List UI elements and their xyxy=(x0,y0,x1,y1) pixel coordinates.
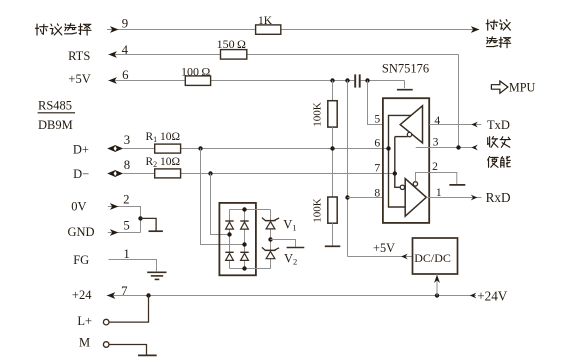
diode D2 xyxy=(240,220,248,222)
svg-text:RxD: RxD xyxy=(486,190,511,205)
wire to logic ground xyxy=(141,218,157,230)
earth ground symbol xyxy=(147,271,166,273)
svg-text:0V: 0V xyxy=(71,200,86,214)
junction +5V/pin5 feed xyxy=(365,78,369,82)
wire FG row xyxy=(109,260,157,272)
wire GND row xyxy=(108,232,141,234)
wire pin5 feed xyxy=(368,81,383,125)
junction RTS/enable xyxy=(456,145,460,149)
svg-text:DC/DC: DC/DC xyxy=(414,251,451,265)
bidirectional arrow D+ xyxy=(115,145,124,152)
wire D+ down to protection xyxy=(201,149,245,245)
resistor R1 10Ω xyxy=(155,144,181,153)
MPU block arrow xyxy=(491,81,508,93)
ground bar (pin2 /RE) xyxy=(449,184,465,186)
resistor 1K xyxy=(256,25,281,34)
svg-text:6: 6 xyxy=(374,137,380,150)
U1 chip body xyxy=(383,98,429,223)
svg-text:R1 10Ω: R1 10Ω xyxy=(146,131,181,144)
svg-text:3: 3 xyxy=(433,136,439,149)
arrow into circuit (0V) xyxy=(110,203,119,210)
svg-text:100K: 100K xyxy=(312,198,324,223)
arrow into circuit (protocol select) xyxy=(110,26,119,33)
wire +5V to 100K R3 xyxy=(332,81,334,101)
svg-text:5: 5 xyxy=(123,218,129,232)
svg-text:R2 10Ω: R2 10Ω xyxy=(146,156,181,169)
arrow +5V out xyxy=(401,254,408,260)
driver amplifier (in U1) xyxy=(400,106,422,143)
node 选择 label (right) xyxy=(487,37,498,47)
wire +24 rail xyxy=(107,295,476,297)
arrow into circuit (GND) xyxy=(110,229,119,236)
wire D+ line down to 100K R4 xyxy=(332,149,334,198)
wire +24 into DC/DC xyxy=(436,274,438,296)
wire TVS mid to ground xyxy=(271,240,296,247)
wire L+ to +24 rail xyxy=(109,296,148,323)
wire protection left column xyxy=(229,210,231,269)
wire D− down to protection xyxy=(211,174,230,235)
junction bottom rail / right column xyxy=(242,266,246,270)
ground bar (TVS) xyxy=(287,247,305,249)
U2 DC/DC box xyxy=(413,238,458,274)
terminal M xyxy=(103,342,109,348)
wire protection right column xyxy=(244,210,246,269)
svg-text:RS485: RS485 xyxy=(38,98,72,112)
svg-text:TxD: TxD xyxy=(487,118,510,132)
resistor 100Ω xyxy=(185,76,210,86)
wire RTS row xyxy=(108,54,220,56)
arrow out to DB9 (+24) xyxy=(107,292,116,299)
svg-text:FG: FG xyxy=(73,253,89,267)
arrow transceiver-enable xyxy=(471,145,478,151)
capacitor C1 xyxy=(354,74,356,87)
wire pin1 RxD xyxy=(426,197,481,199)
arrow RxD xyxy=(471,195,478,201)
svg-text:MPU: MPU xyxy=(509,80,536,94)
junction B line / diodes xyxy=(227,232,231,236)
junction TVS mid xyxy=(268,237,272,241)
svg-text:100K: 100K xyxy=(312,102,324,127)
wire +5V row xyxy=(108,80,185,82)
wire protection bottom rail xyxy=(230,268,271,270)
ground bar (M) xyxy=(138,354,157,356)
protection network box xyxy=(219,203,256,275)
wire R3 to D+ line xyxy=(332,127,334,148)
svg-text:L+: L+ xyxy=(77,314,92,328)
wire protocol-select row xyxy=(107,29,256,31)
junction A line / diodes xyxy=(242,242,246,246)
wire R4 to ground bar xyxy=(332,223,334,246)
svg-text:9: 9 xyxy=(122,17,128,31)
wire pin2 /RE xyxy=(416,173,457,185)
wire M row xyxy=(109,345,146,355)
svg-text:3: 3 xyxy=(124,133,130,147)
junction D+/protection xyxy=(198,146,202,150)
arrow TxD xyxy=(471,122,478,128)
junction pin6/A-net xyxy=(386,146,390,150)
receiver enable bubble xyxy=(413,182,417,186)
svg-text:2: 2 xyxy=(432,160,438,173)
svg-text:8: 8 xyxy=(124,158,130,172)
junction D−/protection xyxy=(208,171,212,175)
wire pin3 enable xyxy=(416,147,472,149)
svg-text:+24: +24 xyxy=(72,288,92,302)
svg-text:RTS: RTS xyxy=(68,49,90,63)
wire RTS to enable node (vertical) xyxy=(458,55,460,148)
junction +5V/DCDC xyxy=(345,78,349,82)
svg-text:5: 5 xyxy=(374,112,380,125)
wire TVS chain xyxy=(270,210,272,269)
junction +5V/100K xyxy=(330,78,334,82)
node 协议 label (right) xyxy=(486,20,498,30)
arrow out to DB9 (RTS) xyxy=(108,51,117,58)
wire D+ row xyxy=(123,148,155,150)
svg-text:GND: GND xyxy=(67,225,94,239)
diode D3 xyxy=(225,251,233,253)
resistor 150Ω xyxy=(221,50,247,60)
arrow out to +24V (right) xyxy=(470,293,477,299)
chip Vcc bar symbol xyxy=(397,89,413,91)
svg-text:6: 6 xyxy=(122,68,129,82)
ground bar (100K) xyxy=(325,245,341,247)
svg-text:DB9M: DB9M xyxy=(38,118,73,132)
logic ground bar xyxy=(149,230,163,232)
svg-text:D+: D+ xyxy=(73,143,89,157)
wire B-net to driver bubble xyxy=(395,136,408,138)
wire protection top rail xyxy=(230,209,271,211)
svg-text:D−: D− xyxy=(73,167,89,181)
driver inverting bubble xyxy=(407,132,411,136)
receiver inverting bubble xyxy=(400,185,404,189)
svg-text:+5V: +5V xyxy=(68,72,90,86)
wire pin4 TxD xyxy=(429,124,481,126)
wire B-net internal xyxy=(395,137,400,188)
arrow out to DB9 (+5V) xyxy=(108,77,117,84)
diode D1 xyxy=(225,220,233,222)
svg-text:+24V: +24V xyxy=(477,289,508,304)
wire 0V row xyxy=(108,207,141,233)
junction +24/L+ xyxy=(146,293,150,297)
arrow +24 into DC/DC xyxy=(434,275,440,283)
wire Vcc tap to chip xyxy=(404,81,406,89)
receiver amplifier (in U1) xyxy=(405,179,426,217)
resistor R2 10Ω xyxy=(155,169,181,178)
TVS diode V2 xyxy=(262,247,279,250)
node 使能 label xyxy=(488,157,498,168)
wire +5V out of DC/DC xyxy=(348,256,413,258)
arrow to MPU (protocol select) xyxy=(471,26,480,33)
svg-text:+5V: +5V xyxy=(373,241,395,255)
wire D− row xyxy=(123,173,155,175)
wire A-net internal xyxy=(389,115,416,207)
junction +5V/pin8 xyxy=(345,195,349,199)
svg-text:1: 1 xyxy=(123,247,129,261)
svg-text:7: 7 xyxy=(374,162,380,175)
junction 0V/GND tie xyxy=(138,216,142,220)
svg-text:M: M xyxy=(79,336,90,350)
node 收发 label xyxy=(488,137,498,148)
TVS diode V1 xyxy=(262,218,279,221)
svg-text:2: 2 xyxy=(123,193,129,207)
node 协议选择 (protocol select) label xyxy=(35,24,47,35)
resistor R3 100K xyxy=(328,101,337,127)
wire pin8 feed xyxy=(348,197,383,199)
wire +5V feed (DC/DC to rail) xyxy=(347,81,349,257)
bidirectional arrow D− xyxy=(115,170,124,177)
junction top rail / right column xyxy=(242,207,246,211)
svg-text:SN75176: SN75176 xyxy=(382,62,429,76)
diode D4 xyxy=(240,251,248,253)
resistor R4 100K xyxy=(328,197,337,223)
svg-text:8: 8 xyxy=(374,186,380,199)
junction +24/DCDC xyxy=(435,293,439,297)
terminal L+ xyxy=(103,319,109,325)
junction D+/100K xyxy=(330,146,334,150)
junction pin7/B-net xyxy=(393,171,397,175)
